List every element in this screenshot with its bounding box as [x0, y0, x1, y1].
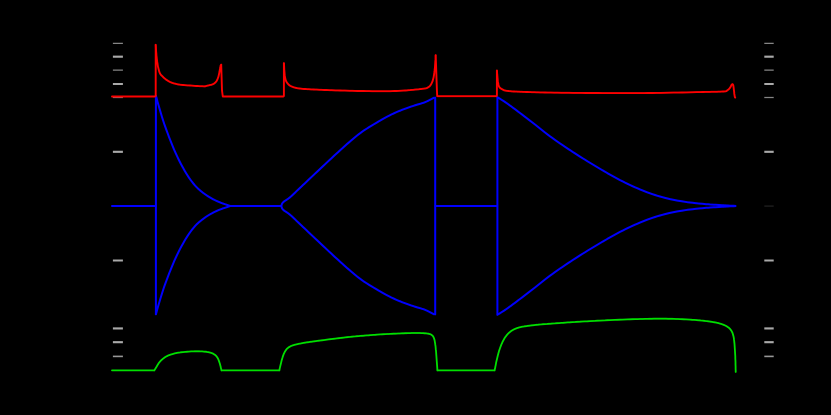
left axis zero tick (dark) — [113, 205, 123, 207]
red trace: spike 4 drop, baseline, spike 5 rise — [436, 55, 497, 96]
blue trace: centerline segment 2 — [230, 205, 281, 207]
blue trace: burst 1 lower envelope — [156, 206, 230, 314]
blue trace: burst 2 lower envelope — [281, 206, 434, 314]
green trace: baseline segment 2 — [222, 369, 280, 371]
blue trace: centerline segment 3 — [435, 205, 497, 207]
left axis medium tick — [113, 355, 123, 357]
right axis minor ticks (dim) — [764, 43, 773, 97]
blue trace: burst 3 upper envelope — [497, 97, 735, 206]
red trace: decay after spike 1 — [156, 45, 205, 87]
green trace: bump 1 — [154, 351, 221, 370]
blue trace: centerline segment 1 — [112, 205, 156, 207]
blue trace: burst 1 leading vertical — [155, 96, 157, 314]
right axis major ticks (bright) — [764, 57, 773, 343]
green trace: baseline segment 1 — [112, 369, 154, 371]
blue trace: burst 3 lower envelope — [497, 206, 735, 315]
red trace: spike 2 drop, baseline, spike 3 rise — [221, 63, 284, 96]
left axis major ticks (bright) — [113, 57, 123, 343]
red trace: rise into spike 2 — [205, 65, 221, 87]
red trace: baseline and spike 1 — [112, 45, 156, 97]
red trace: terminal bump and drop — [733, 84, 736, 97]
left axis minor ticks (dim) — [113, 43, 123, 97]
red trace: decay after spike 5 — [497, 71, 733, 94]
blue trace: burst 2 upper envelope — [281, 98, 434, 206]
blue trace: burst 3 leading vertical — [496, 97, 498, 314]
right axis medium tick — [764, 355, 773, 357]
green trace: bump 3 — [495, 319, 736, 372]
right axis zero tick (dark) — [764, 205, 773, 207]
blue trace: burst 2 collapse vertical — [434, 98, 436, 315]
green trace: bump 2 — [279, 333, 437, 370]
green trace: baseline segment 3 — [437, 369, 494, 371]
red trace: decay after spike 3 into spike 4 — [284, 55, 436, 91]
blue trace: burst 1 upper envelope — [156, 96, 230, 206]
